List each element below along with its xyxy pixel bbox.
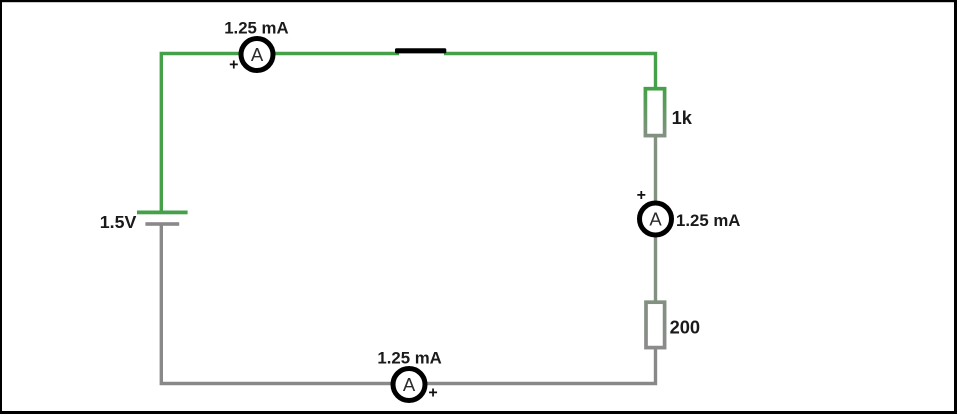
svg-text:+: + [229,56,238,73]
svg-text:+: + [428,384,437,401]
svg-text:A: A [251,44,264,65]
resistor R1 value label 1k [672,107,693,128]
ammeter A3 plus terminal mark [428,384,437,401]
resistor R1 1k body [645,89,664,136]
resistor R2 200 body [646,302,665,347]
svg-text:1.25 mA: 1.25 mA [224,19,288,38]
wire green left+top segment (battery + to switch) [161,54,399,213]
battery value label 1.5V [100,212,137,232]
ammeter A1 reading 1.25 mA [224,19,288,38]
svg-text:+: + [637,187,646,204]
wire green top right segment (switch to resistor 1k) [444,54,656,90]
ammeter A2 body [640,203,672,235]
battery V1 negative plate [145,222,179,226]
resistor R2 value label 200 [670,317,701,338]
svg-text:1k: 1k [672,107,693,128]
wire sage (resistor 1k to resistor 200 via ammeter A2) [654,135,657,302]
ammeter A3 body [393,369,425,401]
ammeter A2 plus terminal mark [637,187,646,204]
svg-text:A: A [649,209,662,230]
ammeter A3 reading 1.25 mA [377,348,441,367]
switch S1 (closed) [395,48,446,53]
wire gray (resistor 200 to battery - via ammeter A3) [161,224,655,384]
ammeter A1 body [241,39,273,71]
svg-text:1.5V: 1.5V [100,212,137,232]
battery V1 positive plate [137,211,188,215]
ammeter A2 reading 1.25 mA [676,211,740,230]
svg-text:200: 200 [670,317,701,338]
ammeter A1 plus terminal mark [229,56,238,73]
svg-text:1.25 mA: 1.25 mA [676,211,740,230]
svg-text:1.25 mA: 1.25 mA [377,348,441,367]
svg-text:A: A [403,374,416,395]
